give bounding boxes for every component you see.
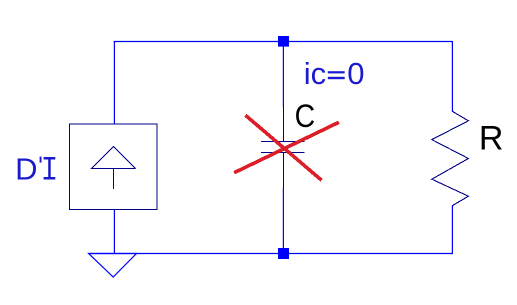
svg-text:0: 0 xyxy=(347,56,364,91)
wire left vertical (top wire to current source) xyxy=(113,41,115,125)
red cross line 2 (bottom-left to top-right) xyxy=(234,122,339,172)
ground xyxy=(89,254,137,278)
svg-text:C: C xyxy=(295,98,316,134)
wire right vertical upper (top wire to resistor) xyxy=(451,41,453,112)
label ic=0 (capacitor current annotation) xyxy=(304,56,365,91)
label D'I (current source value) xyxy=(15,152,55,187)
wire top horizontal (node top net) xyxy=(114,41,453,43)
wire right vertical lower (resistor to bottom wire) xyxy=(451,206,453,254)
red cross line 1 (top-left to bottom-right) xyxy=(245,115,321,180)
wire bottom horizontal (ground net) xyxy=(89,253,454,255)
node junction top (blue square) xyxy=(278,36,289,47)
resistor R zigzag xyxy=(432,111,469,205)
svg-text:ic: ic xyxy=(304,56,326,91)
wire current source to ground xyxy=(113,209,115,253)
svg-text:D: D xyxy=(15,152,37,187)
current source D'I box xyxy=(70,124,158,209)
capacitor C bottom plate xyxy=(261,152,305,154)
capacitor C pin stubs xyxy=(282,106,284,188)
svg-text:R: R xyxy=(479,120,504,158)
capacitor C top plate xyxy=(261,141,305,143)
node junction bottom (blue square) xyxy=(278,248,289,259)
wire middle vertical lower (capacitor to bottom node) xyxy=(282,188,284,254)
current source D'I arrow xyxy=(92,147,136,190)
wire middle vertical upper (top node to capacitor) xyxy=(282,41,284,107)
